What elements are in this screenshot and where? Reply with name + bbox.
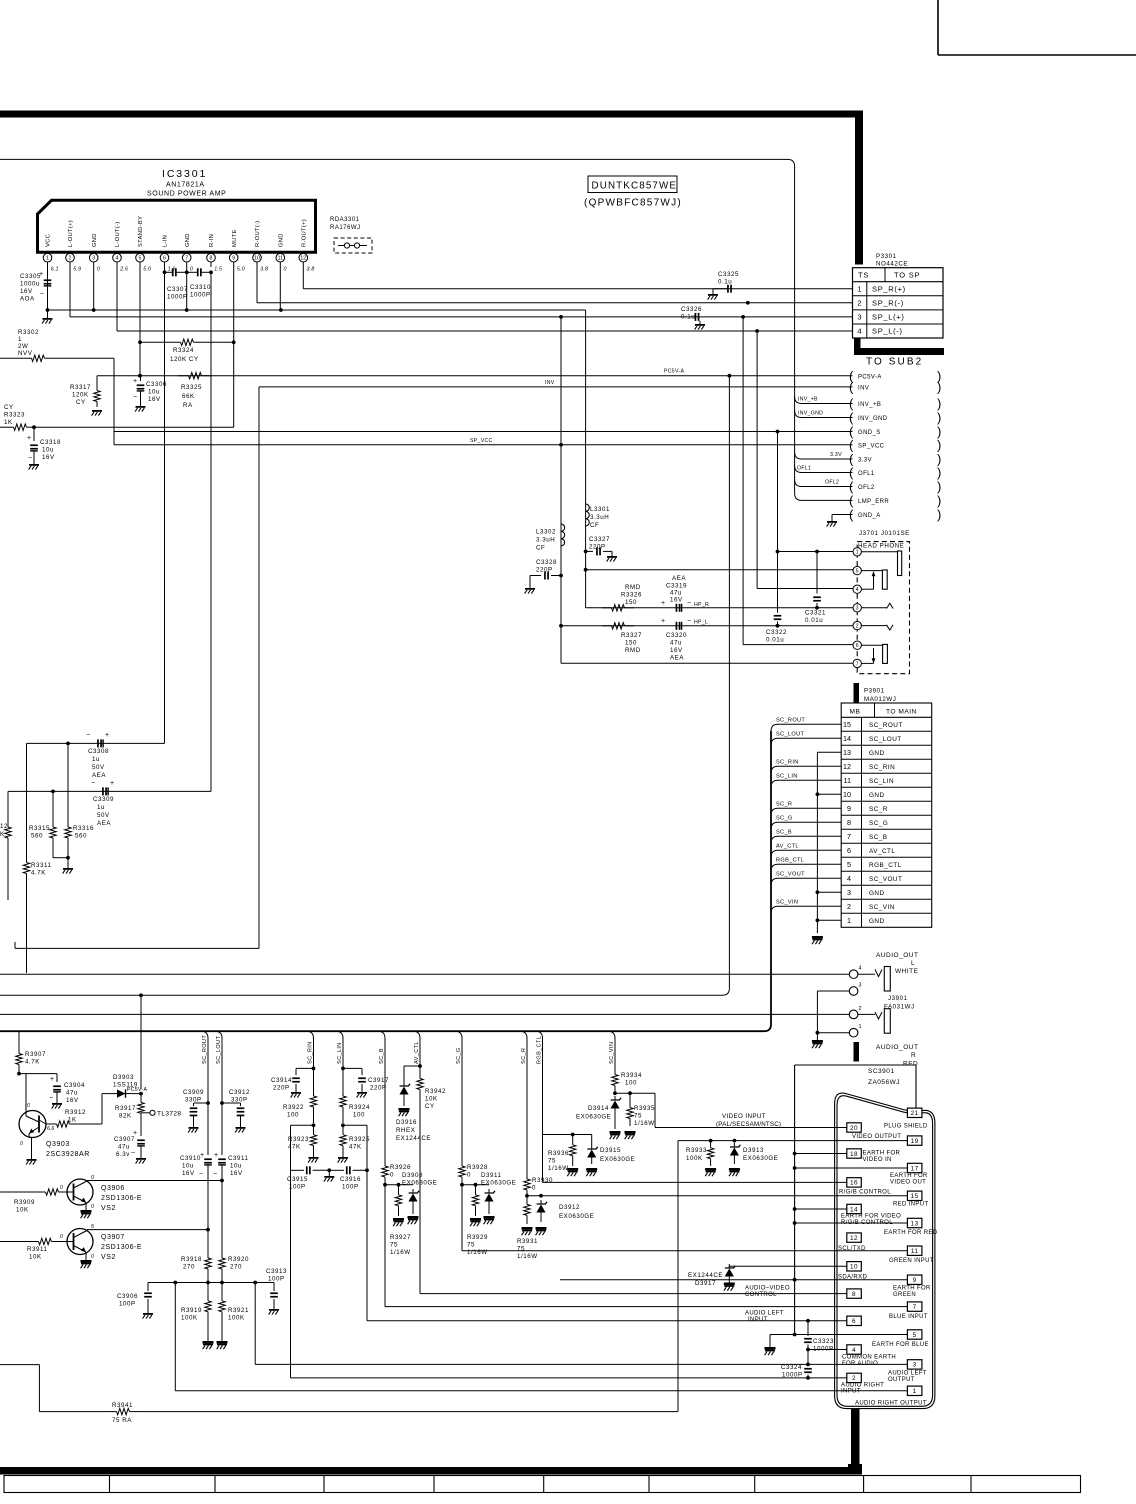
wire to scart pin 3 AUDIO LEFT OUTPUT bbox=[255, 1283, 907, 1367]
svg-text:COMMON EARTH: COMMON EARTH bbox=[842, 1354, 896, 1360]
svg-text:6.3v: 6.3v bbox=[116, 1151, 130, 1158]
svg-text:9: 9 bbox=[913, 1277, 917, 1284]
svg-text:+: + bbox=[39, 271, 43, 278]
svg-text:SC_VIN: SC_VIN bbox=[869, 904, 895, 911]
capacitor C3323 1000P bbox=[804, 1321, 834, 1353]
svg-text:C3906: C3906 bbox=[117, 1293, 138, 1300]
svg-text:270: 270 bbox=[183, 1264, 195, 1271]
svg-text:AOA: AOA bbox=[20, 296, 35, 303]
svg-text:C3320: C3320 bbox=[666, 632, 687, 639]
wire SC_G node bbox=[460, 1180, 489, 1187]
svg-text:PC5V-A: PC5V-A bbox=[664, 369, 684, 375]
connector SC3901 pin 11 bbox=[907, 1246, 922, 1255]
connector J3701 J0101SE HEAD PHONE label bbox=[858, 530, 910, 550]
wire audio jack pin3 to ground trunk bbox=[817, 991, 849, 1033]
wire P3901 pin 9 SC_R to bus bbox=[771, 802, 841, 816]
svg-text:GND: GND bbox=[869, 792, 885, 799]
resistor R3929 75 1/16W bbox=[467, 1185, 488, 1256]
svg-text:R3918: R3918 bbox=[181, 1256, 202, 1263]
wire scart pin 10 SDA/RXD bbox=[729, 1266, 849, 1268]
svg-text:EX0630GE: EX0630GE bbox=[600, 1156, 635, 1163]
svg-text:VS2: VS2 bbox=[101, 1254, 116, 1261]
svg-text:50V: 50V bbox=[92, 764, 105, 771]
svg-text:EARTH FOR: EARTH FOR bbox=[893, 1286, 931, 1292]
svg-text:R3922: R3922 bbox=[283, 1104, 304, 1111]
connector J3901 pin 2 bbox=[849, 1006, 861, 1019]
svg-text:RDA3301: RDA3301 bbox=[330, 217, 360, 223]
svg-text:R3317: R3317 bbox=[70, 384, 91, 391]
svg-text:0: 0 bbox=[91, 1175, 94, 1181]
svg-text:R3302: R3302 bbox=[18, 329, 39, 336]
svg-text:66K: 66K bbox=[182, 393, 195, 400]
bus trunk vertical at P3901 bbox=[764, 731, 771, 1031]
svg-text:INV: INV bbox=[858, 386, 869, 392]
svg-text:1: 1 bbox=[859, 1024, 862, 1030]
wire P3901 pin 12 SC_RIN to bus bbox=[771, 760, 841, 774]
svg-text:1: 1 bbox=[18, 336, 22, 343]
svg-text:8: 8 bbox=[852, 1291, 856, 1298]
connector J3901 FA031WJ label bbox=[884, 995, 915, 1011]
resistor R3942 10K CY bbox=[417, 1066, 446, 1110]
svg-text:16V: 16V bbox=[20, 288, 33, 295]
svg-text:1: 1 bbox=[857, 284, 861, 293]
svg-text:0: 0 bbox=[60, 1234, 63, 1240]
wire scart pin 17 earth bbox=[795, 1167, 908, 1169]
wire GND_A with ground bbox=[827, 515, 853, 527]
svg-text:21: 21 bbox=[911, 1110, 919, 1117]
inductor L3301 3.3uH CF bbox=[586, 504, 610, 529]
svg-text:16V: 16V bbox=[670, 597, 683, 604]
capacitor C3318 10u 16V bbox=[27, 427, 61, 469]
svg-text:R3926: R3926 bbox=[390, 1164, 411, 1171]
svg-text:Q3903: Q3903 bbox=[46, 1141, 70, 1148]
svg-text:AV_CTL: AV_CTL bbox=[869, 848, 895, 855]
svg-text:0: 0 bbox=[20, 1141, 23, 1147]
resistor R3325 66K RA bbox=[178, 373, 212, 410]
wire IC pin6 long column to C3308 bbox=[164, 272, 166, 743]
svg-text:PC5V-A: PC5V-A bbox=[858, 374, 882, 380]
svg-text:P3901: P3901 bbox=[864, 688, 885, 695]
svg-text:R3931: R3931 bbox=[517, 1238, 538, 1245]
connector P3901 table TO MAIN bbox=[841, 703, 932, 927]
svg-text:+: + bbox=[110, 780, 114, 787]
connector J3901 pin 3 bbox=[849, 983, 861, 996]
svg-text:3: 3 bbox=[847, 888, 851, 897]
capacitor C3319 47u 16V AEA bbox=[661, 575, 691, 612]
wire GND bus under IC bbox=[46, 267, 586, 312]
resistor R3317 120K CY bbox=[70, 376, 102, 416]
svg-text:75 RA: 75 RA bbox=[112, 1417, 132, 1424]
svg-text:+: + bbox=[27, 435, 31, 442]
svg-text:5: 5 bbox=[856, 569, 859, 575]
connector J3701 pin 6 bbox=[853, 641, 861, 649]
connector TO SUB2 pin 3.3V bbox=[849, 452, 941, 467]
svg-text:SC_R: SC_R bbox=[869, 806, 888, 813]
capacitor C3328 220P bbox=[525, 559, 561, 594]
svg-text:C3305: C3305 bbox=[20, 273, 41, 280]
svg-text:R3311: R3311 bbox=[31, 862, 52, 869]
svg-text:SC_G: SC_G bbox=[869, 820, 888, 827]
capacitor C3322 0.01u bbox=[766, 615, 787, 644]
svg-text:15: 15 bbox=[911, 1193, 919, 1200]
svg-text:INV_GND: INV_GND bbox=[858, 416, 888, 422]
svg-text:5: 5 bbox=[847, 860, 851, 869]
ground for R3919 bbox=[203, 1330, 214, 1349]
svg-text:TS: TS bbox=[858, 271, 869, 280]
svg-text:+: + bbox=[661, 618, 665, 625]
label Q3903 2SC3928AR bbox=[46, 1141, 90, 1158]
svg-text:HP_R: HP_R bbox=[694, 602, 709, 608]
svg-text:D3917: D3917 bbox=[695, 1280, 716, 1287]
resistor R3917 82K bbox=[115, 1094, 144, 1122]
wire P3901 pin 8 SC_G to bus bbox=[771, 816, 841, 830]
svg-text:AUDIO LEFT: AUDIO LEFT bbox=[745, 1311, 784, 1317]
svg-text:10: 10 bbox=[850, 1264, 858, 1271]
svg-text:−: − bbox=[91, 780, 95, 787]
svg-text:C3327: C3327 bbox=[589, 536, 610, 543]
svg-text:SP_R(-): SP_R(-) bbox=[872, 298, 904, 307]
svg-text:4: 4 bbox=[116, 256, 119, 262]
ground for P3901 GND bbox=[812, 936, 823, 944]
svg-text:C3911: C3911 bbox=[228, 1155, 249, 1162]
svg-text:1: 1 bbox=[913, 1388, 917, 1395]
wire AV_CTL node bbox=[404, 1064, 422, 1082]
wire Q3903 collector node bbox=[17, 1071, 57, 1112]
svg-text:2W: 2W bbox=[18, 343, 28, 350]
svg-text:0: 0 bbox=[91, 1204, 94, 1210]
label QPWBFC857WJ bbox=[584, 198, 682, 209]
svg-text:−: − bbox=[213, 1171, 217, 1178]
svg-text:0: 0 bbox=[27, 1103, 30, 1109]
svg-text:GND: GND bbox=[869, 918, 885, 925]
svg-text:C3310: C3310 bbox=[190, 284, 211, 291]
connector P3901 MA012WJ label bbox=[864, 688, 896, 704]
svg-text:SC_LIN: SC_LIN bbox=[869, 778, 894, 785]
svg-text:): ) bbox=[937, 493, 941, 508]
ground for C3915 C3916 midpoint bbox=[324, 1170, 334, 1181]
svg-text:AUDIO RIGHT OUTPUT: AUDIO RIGHT OUTPUT bbox=[855, 1400, 927, 1406]
svg-text:19: 19 bbox=[911, 1138, 919, 1145]
connector TO SUB2 pin LMP_ERR bbox=[849, 493, 941, 508]
wire R3941 video loop bbox=[0, 1365, 104, 1412]
svg-text:75: 75 bbox=[548, 1158, 556, 1165]
svg-text:C3917: C3917 bbox=[368, 1077, 389, 1084]
thick stub AUDIO_OUT bbox=[854, 1042, 860, 1062]
svg-text:3.8: 3.8 bbox=[260, 267, 268, 273]
headphone jack sleeve contact bbox=[861, 644, 887, 663]
svg-text:SC_B: SC_B bbox=[869, 834, 888, 841]
svg-text:R3927: R3927 bbox=[390, 1234, 411, 1241]
IC3301 pin 11 GND bbox=[276, 233, 287, 272]
IC3301 pin 5 STAND-BY bbox=[136, 216, 151, 273]
svg-text:D3912: D3912 bbox=[559, 1204, 580, 1211]
wire IC pin4 to SP_L(-) bbox=[117, 267, 853, 331]
svg-text:R3316: R3316 bbox=[73, 825, 94, 832]
test point TL3728 bbox=[141, 1110, 181, 1117]
svg-text:(: ( bbox=[849, 437, 854, 452]
svg-text:R-OUT(+): R-OUT(+) bbox=[302, 219, 308, 247]
svg-text:16V: 16V bbox=[66, 1097, 79, 1104]
svg-text:R3919: R3919 bbox=[181, 1307, 202, 1314]
svg-text:EARTH FOR VIDEO: EARTH FOR VIDEO bbox=[841, 1214, 901, 1220]
svg-text:FOR AUDIO: FOR AUDIO bbox=[842, 1361, 878, 1367]
svg-text:(QPWBFC857WJ): (QPWBFC857WJ) bbox=[584, 198, 682, 209]
bus riser AV_CTL bbox=[413, 1031, 420, 1066]
wire audio jack pin1 to ground trunk bbox=[816, 1031, 850, 1040]
svg-text:6.1: 6.1 bbox=[51, 267, 59, 273]
svg-text:MA012WJ: MA012WJ bbox=[864, 696, 896, 703]
svg-text:P3301: P3301 bbox=[876, 253, 897, 260]
svg-text:4: 4 bbox=[856, 587, 859, 593]
svg-text:4: 4 bbox=[847, 874, 851, 883]
svg-text:0: 0 bbox=[467, 1172, 471, 1179]
resistor R3927 75 1/16W bbox=[390, 1185, 411, 1256]
capacitor C3307 1000P bbox=[163, 267, 189, 301]
wire OFL2 branch bbox=[795, 480, 853, 487]
wire net A vertical from SP_L line bbox=[559, 317, 563, 663]
svg-text:C3322: C3322 bbox=[766, 629, 787, 636]
svg-text:+: + bbox=[105, 732, 109, 739]
resistor R3924 100 bbox=[340, 1068, 370, 1123]
svg-text:Q3907: Q3907 bbox=[101, 1234, 125, 1241]
svg-text:220P: 220P bbox=[370, 1085, 387, 1092]
svg-text:R3325: R3325 bbox=[181, 384, 202, 391]
zener diode D3912 EX0630GE bbox=[536, 1200, 595, 1235]
svg-text:1u: 1u bbox=[97, 804, 105, 811]
svg-text:AEA: AEA bbox=[672, 575, 686, 582]
svg-text:EARTH FOR BLUE: EARTH FOR BLUE bbox=[872, 1342, 929, 1348]
headphone jack pin2 arrow bbox=[861, 625, 893, 630]
svg-text:R3909: R3909 bbox=[14, 1199, 35, 1206]
svg-text:R3917: R3917 bbox=[115, 1105, 136, 1112]
headphone jack tip contact bbox=[861, 551, 901, 576]
wire IC pin9 MUTE column bbox=[233, 267, 235, 427]
ground for Q3903 emitter bbox=[26, 1159, 36, 1165]
svg-text:4.7K: 4.7K bbox=[31, 870, 46, 877]
resistor R3302 2W NVV bbox=[0, 329, 114, 362]
svg-text:C3325: C3325 bbox=[718, 271, 739, 278]
connector SC3901 pin 3 bbox=[907, 1360, 922, 1369]
svg-text:OFL1: OFL1 bbox=[858, 471, 875, 477]
capacitor C3327 220P bbox=[586, 536, 617, 562]
capacitor C3912 330P bbox=[220, 1089, 250, 1133]
svg-text:10u: 10u bbox=[230, 1163, 242, 1170]
svg-text:1: 1 bbox=[856, 550, 859, 556]
svg-text:14: 14 bbox=[843, 734, 851, 743]
svg-text:R3928: R3928 bbox=[467, 1164, 488, 1171]
svg-text:EARTH FOR RED: EARTH FOR RED bbox=[884, 1230, 938, 1236]
svg-text:5: 5 bbox=[139, 256, 142, 262]
wire LMP_ERR branch bbox=[795, 493, 853, 500]
svg-text:330P: 330P bbox=[185, 1097, 202, 1104]
wire P3901 pin 2 SC_VIN to bus bbox=[771, 900, 841, 914]
resistor R3925 47K bbox=[338, 1123, 370, 1162]
svg-text:1/16W: 1/16W bbox=[517, 1253, 538, 1260]
svg-text:7: 7 bbox=[856, 661, 859, 667]
svg-text:R/G/B CONTROL: R/G/B CONTROL bbox=[841, 1220, 893, 1226]
bus riser SC_VIN bbox=[608, 1031, 615, 1070]
svg-text:2SD1306-E: 2SD1306-E bbox=[101, 1195, 142, 1202]
svg-text:2: 2 bbox=[856, 624, 859, 630]
svg-text:R3933: R3933 bbox=[686, 1147, 707, 1154]
svg-text:11: 11 bbox=[278, 256, 283, 262]
svg-text:R3324: R3324 bbox=[173, 347, 194, 354]
capacitor C3915 100P bbox=[287, 1125, 331, 1190]
connector J3701 headphone jack dashed outline bbox=[857, 542, 909, 674]
svg-text:100P: 100P bbox=[119, 1301, 136, 1308]
svg-text:ZA056WJ: ZA056WJ bbox=[868, 1079, 900, 1086]
connector SC3901 pin 17 bbox=[907, 1163, 922, 1172]
svg-text:75: 75 bbox=[467, 1242, 475, 1249]
svg-text:16V: 16V bbox=[182, 1170, 195, 1177]
connector J3701 pin 1 bbox=[853, 548, 861, 556]
svg-text:6: 6 bbox=[856, 643, 859, 649]
connector J3701 pin 7 bbox=[853, 659, 861, 667]
svg-text:1/16W: 1/16W bbox=[634, 1120, 655, 1127]
wire IC pin5 column bbox=[138, 267, 142, 378]
svg-text:100: 100 bbox=[287, 1112, 299, 1119]
svg-text:DUNTKC857WE: DUNTKC857WE bbox=[592, 181, 678, 192]
svg-text:SP_VCC: SP_VCC bbox=[470, 438, 493, 444]
svg-text:INV_+B: INV_+B bbox=[858, 402, 881, 408]
bus riser SC_G bbox=[455, 1031, 462, 1163]
wire R3941 to video node bbox=[142, 1141, 678, 1412]
svg-text:1000u: 1000u bbox=[20, 281, 40, 288]
svg-text:GND: GND bbox=[185, 233, 191, 247]
svg-text:100K: 100K bbox=[228, 1315, 245, 1322]
svg-text:GREEN: GREEN bbox=[893, 1292, 916, 1298]
wire 3.3V branch bbox=[795, 452, 853, 459]
svg-text:AUDIO LEFT: AUDIO LEFT bbox=[888, 1371, 927, 1377]
wire P3901 pin 7 SC_B to bus bbox=[771, 830, 841, 844]
wire R3315 R3316 bottoms join bbox=[53, 856, 70, 860]
svg-text:13: 13 bbox=[843, 748, 851, 757]
svg-text:C3909: C3909 bbox=[183, 1089, 204, 1096]
connector SC3901 pin 20 bbox=[847, 1123, 862, 1132]
zener diode D3908 EX0630GE bbox=[402, 1172, 437, 1224]
resistor R3931 75 1/16W bbox=[517, 1196, 538, 1260]
resistor R3326 150 RMD bbox=[602, 584, 642, 611]
svg-text:1000P: 1000P bbox=[190, 292, 211, 299]
svg-text:17: 17 bbox=[911, 1165, 919, 1172]
svg-text:SC_RIN: SC_RIN bbox=[308, 1041, 314, 1064]
resistor R3930 0 bbox=[524, 1176, 553, 1193]
connector SC3901 pin 4 bbox=[847, 1345, 862, 1354]
wire INV net from pin area bbox=[259, 380, 853, 948]
svg-text:5: 5 bbox=[913, 1332, 917, 1339]
headphone jack switch arrow down bbox=[872, 648, 876, 663]
svg-text:RHEX: RHEX bbox=[396, 1127, 415, 1134]
svg-text:11: 11 bbox=[844, 776, 851, 785]
wire headphone pin5 line from net B bbox=[586, 569, 853, 571]
svg-text:5.0: 5.0 bbox=[143, 267, 151, 273]
wire headphone pin1 ground line bbox=[776, 550, 853, 554]
IC3301 pin 10 R-OUT(-) bbox=[253, 220, 268, 272]
bus riser SC_LOUT bbox=[215, 1031, 222, 1090]
svg-text:VIDEO IN: VIDEO IN bbox=[863, 1157, 892, 1163]
page frame thick top bar bbox=[0, 111, 862, 118]
svg-text:INPUT: INPUT bbox=[841, 1389, 861, 1395]
svg-text:47K: 47K bbox=[288, 1144, 301, 1151]
svg-text:75: 75 bbox=[517, 1246, 525, 1253]
capacitor C3904 47u 16V bbox=[49, 1074, 85, 1109]
connector P3901 thick stub bbox=[854, 683, 860, 703]
top-right title block box bbox=[938, 0, 1136, 55]
wire audio jack pin2 line bbox=[0, 1013, 849, 1015]
IC3301 pin 3 GND bbox=[89, 233, 100, 272]
wire C3322 branch vertical bbox=[776, 430, 780, 613]
wire net B vertical from GND bus bbox=[584, 310, 588, 608]
svg-text:GREEN INPUT: GREEN INPUT bbox=[889, 1258, 934, 1264]
connector J3701 pin 4 bbox=[853, 585, 861, 593]
svg-text:4: 4 bbox=[852, 1347, 856, 1354]
resistor R3311 4.7K bbox=[23, 743, 51, 973]
svg-text:0: 0 bbox=[91, 1254, 94, 1260]
svg-text:1.5: 1.5 bbox=[214, 267, 222, 273]
svg-text:1: 1 bbox=[46, 256, 49, 262]
headphone jack switch arrow up bbox=[872, 571, 876, 589]
svg-text:R3942: R3942 bbox=[425, 1088, 446, 1095]
svg-text:150: 150 bbox=[625, 599, 637, 606]
svg-text:MUTE: MUTE bbox=[232, 229, 238, 247]
connector TO SUB2 pin OFL1 bbox=[849, 465, 941, 480]
wire P3901 pin 6 AV_CTL to bus bbox=[771, 844, 841, 858]
svg-text:8: 8 bbox=[210, 256, 213, 262]
svg-text:EX1244CE: EX1244CE bbox=[688, 1272, 723, 1279]
connector J3701 pin 3 bbox=[853, 604, 861, 612]
connector J3901 pin 4 bbox=[849, 966, 861, 979]
connector SC3901 pin 6 bbox=[847, 1316, 862, 1325]
svg-text:10u: 10u bbox=[148, 389, 160, 396]
svg-text:1.6: 1.6 bbox=[168, 267, 176, 273]
capacitor C3320 47u 16V AEA bbox=[661, 618, 691, 662]
resistor R3316 560 bbox=[65, 743, 94, 857]
svg-text:(: ( bbox=[849, 380, 854, 395]
svg-text:16V: 16V bbox=[42, 454, 55, 461]
svg-text:C3308: C3308 bbox=[88, 748, 109, 755]
capacitor C3308 1u 50V AEA bbox=[86, 732, 109, 779]
svg-text:AV_CTL: AV_CTL bbox=[776, 844, 799, 850]
svg-text:C3916: C3916 bbox=[340, 1176, 361, 1183]
connector J3901 pin 1 bbox=[849, 1024, 861, 1037]
svg-text:+: + bbox=[661, 600, 665, 607]
footer revision table bbox=[4, 1476, 1081, 1493]
connector SC3901 pin 12 bbox=[847, 1233, 862, 1242]
svg-text:C3907: C3907 bbox=[114, 1136, 135, 1143]
svg-text:C3309: C3309 bbox=[93, 796, 114, 803]
svg-text:C3324: C3324 bbox=[781, 1364, 802, 1371]
svg-text:7: 7 bbox=[847, 832, 851, 841]
svg-text:1000P: 1000P bbox=[782, 1372, 803, 1379]
connector SC3901 pin 5 bbox=[907, 1330, 922, 1339]
IC3301 pin 2 L-OUT(+) bbox=[66, 220, 81, 273]
svg-text:C3914: C3914 bbox=[271, 1077, 292, 1084]
resistor R3919 100K bbox=[181, 1283, 211, 1331]
svg-text:R3929: R3929 bbox=[467, 1234, 488, 1241]
svg-text:+: + bbox=[214, 1152, 218, 1159]
connector SC3901 pin 21 bbox=[907, 1108, 922, 1117]
wire video clamp line to scart pin 19 bbox=[678, 1139, 907, 1143]
svg-text:EX0630GE: EX0630GE bbox=[743, 1155, 778, 1162]
svg-text:3.3V: 3.3V bbox=[858, 458, 872, 464]
label TO SUB2 bbox=[866, 357, 923, 368]
svg-text:−: − bbox=[49, 1095, 53, 1102]
connector J3701 pin 2 bbox=[853, 621, 861, 629]
svg-text:SC_LIN: SC_LIN bbox=[776, 774, 798, 780]
svg-text:R3923: R3923 bbox=[288, 1136, 309, 1143]
wire SP_VCC net horizontal bbox=[114, 438, 853, 447]
wire PC5V-A vertical to Q area bbox=[0, 376, 729, 1089]
